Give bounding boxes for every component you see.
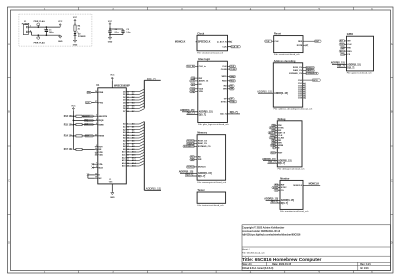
gpio bus pins <box>331 62 361 70</box>
svg-text:POWER: POWER <box>78 36 86 38</box>
svg-text:10: 10 <box>127 127 129 129</box>
svg-text:CLK: CLK <box>265 41 270 43</box>
bus D[0..7] vertical <box>144 80 160 108</box>
svg-text:D[0..7]: D[0..7] <box>220 114 227 116</box>
svg-text:Reset: Reset <box>274 33 281 36</box>
svg-text:CLKB: CLKB <box>221 69 227 71</box>
svg-text:RDY: RDY <box>99 146 104 148</box>
svg-text:19: 19 <box>127 152 129 154</box>
sheet Memory <box>197 132 227 184</box>
svg-text:WR: WR <box>223 89 227 91</box>
svg-text:ROM_CS: ROM_CS <box>293 67 303 69</box>
svg-text:26: 26 <box>127 111 129 113</box>
svg-text:Tester: Tester <box>197 189 204 192</box>
svg-text:CLK: CLK <box>275 41 280 43</box>
svg-text:12: 12 <box>127 132 129 134</box>
CPU data pins D0-D7 with net labels <box>123 91 139 113</box>
wire label CLK to PHI2 <box>86 102 95 105</box>
svg-text:GND: GND <box>73 44 78 46</box>
sheet pin CLK to CLK_IN label <box>222 46 240 49</box>
capacitor C3 1.0u <box>110 29 131 34</box>
svg-text:15: 15 <box>127 141 129 143</box>
title block text <box>242 226 371 270</box>
svg-text:SYNC: SYNC <box>281 187 287 189</box>
reset left pin CLK <box>265 40 280 43</box>
svg-text:MONCLK: MONCLK <box>309 183 320 186</box>
svg-text:Monitor: Monitor <box>280 177 289 180</box>
capacitor C2 0.1u <box>108 26 119 36</box>
svg-text:28: 28 <box>127 105 129 107</box>
node label RST <box>85 135 94 137</box>
reset right pin RSTB no-connect <box>297 44 308 47</box>
monitor left pins <box>272 184 287 192</box>
svg-text:D[0..7]: D[0..7] <box>230 111 238 114</box>
svg-text:ROM_CS: ROM_CS <box>198 141 208 143</box>
svg-text:CLK: CLK <box>340 44 344 46</box>
svg-text:ADDR[0..15]: ADDR[0..15] <box>198 172 212 175</box>
sheet Clock <box>197 32 228 54</box>
ground GND power LED branch <box>73 35 78 46</box>
svg-text:CLK: CLK <box>222 66 227 68</box>
svg-text:CLK: CLK <box>278 135 283 137</box>
svg-text:RSTB: RSTB <box>297 45 303 47</box>
VCC symbol decoupling <box>108 21 113 26</box>
svg-text:CLK: CLK <box>347 44 352 46</box>
svg-text:21: 21 <box>109 179 111 181</box>
svg-text:Address decoding: Address decoding <box>274 60 296 63</box>
svg-text:35: 35 <box>95 173 97 175</box>
svg-text:100u: 100u <box>49 32 54 34</box>
svg-text:VCC: VCC <box>110 75 115 77</box>
svg-text:GND: GND <box>58 41 63 43</box>
svg-text:25: 25 <box>127 166 129 168</box>
glue logic bus pins left <box>180 109 213 116</box>
svg-text:RES: RES <box>347 51 352 53</box>
svg-text:23: 23 <box>127 160 129 162</box>
sheet Debug <box>277 118 305 171</box>
address decoding GPIO CS output <box>298 79 321 82</box>
junction at C1 top <box>46 26 48 28</box>
svg-text:27: 27 <box>127 108 129 110</box>
bus entries A0-A15 <box>139 122 144 167</box>
svg-text:KiCad E.D.A. kicad (6.0.6-0): KiCad E.D.A. kicad (6.0.6-0) <box>242 267 273 270</box>
svg-text:CLK_in: CLK_in <box>199 66 207 68</box>
svg-text:MONCS: MONCS <box>198 167 206 169</box>
sheet Tester <box>197 189 226 207</box>
svg-text:Licensed under CERN-OHL-W v2: Licensed under CERN-OHL-W v2 <box>242 230 281 233</box>
junction pullup rail R14 <box>73 135 75 137</box>
svg-text:RWB: RWB <box>99 92 104 94</box>
sheet GPIO <box>347 33 374 74</box>
svg-text:WRD: WRD <box>230 76 235 78</box>
svg-text:13: 13 <box>127 135 129 137</box>
svg-text:1: 1 <box>96 151 97 153</box>
svg-text:7: 7 <box>96 163 97 165</box>
svg-text:33: 33 <box>127 91 129 93</box>
CPU left pin stubs and names <box>95 90 108 180</box>
svg-text:MONCLK: MONCLK <box>175 41 186 44</box>
node label IRQ <box>85 119 94 121</box>
LED D2 POWER <box>74 31 86 38</box>
svg-text:9: 9 <box>127 124 128 126</box>
bus entries D0-D7 <box>139 89 144 111</box>
svg-text:D[0..7]: D[0..7] <box>281 203 288 205</box>
svg-text:SYNC: SYNC <box>230 101 236 103</box>
svg-text:22: 22 <box>127 157 129 159</box>
svg-text:W65C816S6P: W65C816S6P <box>114 84 130 87</box>
svg-text:RW: RW <box>281 185 284 187</box>
junction pullup rail R13 <box>73 115 75 117</box>
VCC symbol power rail <box>58 21 63 27</box>
svg-text:RW: RW <box>341 47 344 49</box>
svg-text:GND: GND <box>110 197 115 199</box>
wire VCC rail from J1 <box>28 26 60 28</box>
svg-text:Date: 2022-04-15: Date: 2022-04-15 <box>272 263 292 266</box>
svg-text:GPIO: GPIO <box>313 80 318 82</box>
svg-text:CLK: CLK <box>86 102 90 104</box>
svg-text:39: 39 <box>95 154 97 156</box>
svg-text:R17 10k: R17 10k <box>64 149 73 151</box>
reset right pin RST <box>298 40 321 43</box>
glue logic D bus out <box>220 111 240 116</box>
svg-text:D[0..7]: D[0..7] <box>198 175 206 178</box>
svg-text:RES: RES <box>298 41 303 43</box>
node label MONCLK into Clock <box>175 41 211 44</box>
svg-text:SYNC: SYNC <box>221 101 227 103</box>
no-connect VPA <box>92 163 94 165</box>
memory left pins <box>183 140 211 169</box>
svg-text:30: 30 <box>127 100 129 102</box>
svg-text:POWER: POWER <box>22 23 30 25</box>
memory bus pins <box>179 171 212 178</box>
svg-text:Debug: Debug <box>278 118 286 121</box>
glue logic right pins <box>221 65 237 103</box>
svg-text:Memory: Memory <box>197 132 207 135</box>
svg-text:VCC: VCC <box>71 105 76 107</box>
svg-text:RW: RW <box>278 125 281 127</box>
svg-text:NMIB: NMIB <box>99 124 105 126</box>
svg-text:31: 31 <box>127 97 129 99</box>
power section dashed outline <box>19 14 92 46</box>
svg-text:CLK: CLK <box>230 66 235 68</box>
svg-text:MONCS: MONCS <box>187 167 195 169</box>
svg-text:RW: RW <box>87 92 90 94</box>
svg-text:R15 10k: R15 10k <box>64 124 73 126</box>
ground GND decoupling <box>108 37 113 44</box>
power flag PWR_FLAG top <box>34 20 46 27</box>
svg-text:WRD: WRD <box>222 76 227 78</box>
capacitor C1 100u <box>44 27 54 35</box>
svg-text:Copyright © 2022 Adrien Kohlbe: Copyright © 2022 Adrien Kohlbecker <box>242 226 284 229</box>
svg-text:Id: 1/13: Id: 1/13 <box>360 267 369 270</box>
title block outline <box>242 225 391 271</box>
address decoding CS outputs <box>289 66 318 75</box>
connector J1 POWER <box>22 21 31 34</box>
VCC symbol power LED branch <box>73 17 78 23</box>
debug left pins <box>268 124 286 154</box>
svg-text:RD: RD <box>198 157 202 159</box>
svg-text:WR: WR <box>278 143 282 145</box>
svg-text:RDD: RDD <box>230 81 235 83</box>
address decoding unused CS pins <box>298 83 306 100</box>
VCC symbol CPU VDD <box>110 75 115 88</box>
svg-text:11: 11 <box>127 129 129 131</box>
svg-text:3: 3 <box>96 115 97 117</box>
gpio left pins <box>339 40 352 56</box>
svg-text:18: 18 <box>127 149 129 151</box>
ground GND CPU VSS <box>109 179 115 199</box>
svg-text:CLKB: CLKB <box>278 138 284 140</box>
sheet Glue logic <box>198 58 230 126</box>
svg-text:VPB: VPB <box>99 152 104 154</box>
svg-text:SYNC: SYNC <box>278 127 284 129</box>
resistor R13 10k pullup <box>64 115 95 118</box>
wire IRQ row <box>73 119 94 121</box>
svg-text:2: 2 <box>96 145 97 147</box>
bus ADDR[0..15] vertical <box>144 122 161 191</box>
resistor R15 10k pullup <box>64 124 95 127</box>
svg-text:IRQB: IRQB <box>99 120 105 122</box>
svg-text:File: 65C816.kicad_sch: File: 65C816.kicad_sch <box>242 253 266 255</box>
junction at PWR_FLAG bottom <box>37 34 39 36</box>
wire VPA stub <box>93 163 95 165</box>
no-connect MLB <box>92 167 94 169</box>
svg-text:ROMCS: ROMCS <box>306 67 314 69</box>
svg-text:29: 29 <box>127 103 129 105</box>
svg-text:RD: RD <box>224 86 228 88</box>
sheet Reset <box>274 33 303 57</box>
svg-text:20: 20 <box>127 155 129 157</box>
svg-text:CLKB: CLKB <box>230 69 236 71</box>
svg-text:GPIO: GPIO <box>347 33 353 36</box>
svg-text:SPEEDCLK: SPEEDCLK <box>198 42 211 44</box>
svg-text:CLK: CLK <box>222 46 227 48</box>
svg-text:ADDR[0..15]: ADDR[0..15] <box>274 92 288 95</box>
svg-text:VCC: VCC <box>58 21 63 23</box>
svg-text:D[0..7]: D[0..7] <box>347 67 354 69</box>
ground GND power rail <box>58 35 63 43</box>
power flag PWR_FLAG bottom <box>34 35 46 44</box>
junction pullup rail R15 <box>73 124 75 126</box>
svg-text:16: 16 <box>127 143 129 145</box>
glue logic left pins <box>186 65 209 93</box>
svg-text:17: 17 <box>127 146 129 148</box>
svg-text:Size: A4: Size: A4 <box>242 263 252 266</box>
svg-text:RST: RST <box>278 153 283 155</box>
svg-text:6: 6 <box>96 123 97 125</box>
svg-text:R13 10k: R13 10k <box>64 116 73 118</box>
wire E and MX joined <box>88 175 95 178</box>
svg-text:ADDR[0..15]: ADDR[0..15] <box>199 111 213 114</box>
svg-text:VCC: VCC <box>73 17 78 19</box>
svg-text:WRB: WRB <box>278 145 283 147</box>
wire GND rail from J1 <box>28 32 60 35</box>
node label ABORT <box>83 115 94 117</box>
junction at C2 top <box>109 28 111 30</box>
svg-text:Clock: Clock <box>197 32 204 35</box>
node label NMI <box>85 124 94 126</box>
svg-text:WR: WR <box>198 159 202 161</box>
svg-text:CLK_IN: CLK_IN <box>187 66 195 68</box>
wire label RW to RWB <box>87 91 95 94</box>
svg-text:RW: RW <box>347 47 350 49</box>
svg-text:VCC: VCC <box>108 21 113 23</box>
svg-text:37: 37 <box>95 101 97 103</box>
svg-text:RESB: RESB <box>99 136 105 138</box>
monitor MONCLK output <box>293 183 320 187</box>
svg-text:MONCLK: MONCLK <box>293 185 302 187</box>
sheet Address decoding <box>273 60 313 111</box>
debug bus pins <box>262 158 291 165</box>
svg-text:RW: RW <box>192 78 195 80</box>
junction pullup rail IRQ <box>73 120 75 122</box>
svg-text:D[0..7]: D[0..7] <box>199 113 207 116</box>
svg-text:D[0..7]: D[0..7] <box>278 163 285 165</box>
svg-text:Glue logic: Glue logic <box>198 58 211 61</box>
svg-text:MLB: MLB <box>99 167 104 169</box>
junction at C2 bottom <box>109 34 111 36</box>
svg-text:32: 32 <box>127 94 129 96</box>
resistor R4 2k <box>74 23 81 31</box>
op-amp U1 W65C816S6P CPU body <box>96 84 130 184</box>
svg-text:38: 38 <box>95 177 97 179</box>
svg-text:h&#116;tps://github.com/adrien: h&#116;tps://github.com/adrienkohlbecker… <box>242 233 301 236</box>
wire MLB stub <box>93 167 95 169</box>
no-connect E MX net <box>87 173 89 175</box>
svg-text:NMI: NMI <box>85 124 89 126</box>
svg-text:GND: GND <box>108 41 113 43</box>
svg-text:CLK_IN: CLK_IN <box>231 46 239 48</box>
junction at C1 bottom <box>46 34 48 36</box>
svg-text:RW: RW <box>199 78 202 80</box>
CPU address pins A0-A15 with net labels <box>122 123 139 168</box>
sheet pin Q_ACT_N with no-connect <box>217 41 232 44</box>
VCC symbol pullup rail <box>71 105 76 149</box>
resistor R17 10k pullup <box>64 148 95 151</box>
address decoding bus pin ADDR <box>257 89 288 95</box>
junction at PWR_FLAG top <box>37 26 39 28</box>
svg-text:RDD: RDD <box>222 81 227 83</box>
resistor R14 10k pullup <box>64 135 95 138</box>
svg-text:Rev: 4.21: Rev: 4.21 <box>360 263 371 266</box>
monitor bus pins <box>264 198 294 205</box>
svg-text:36: 36 <box>95 148 97 150</box>
svg-text:D[0..7]: D[0..7] <box>147 77 156 81</box>
svg-text:RD: RD <box>278 140 282 142</box>
svg-text:5: 5 <box>96 166 97 168</box>
sheet Monitor <box>280 177 309 213</box>
